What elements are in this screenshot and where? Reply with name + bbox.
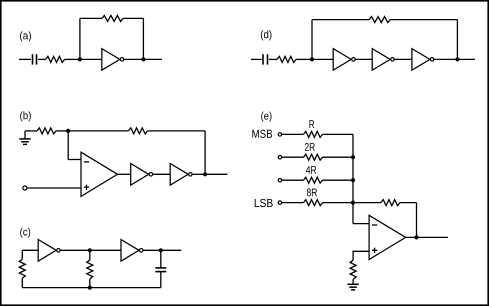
terminal bit2 (e) (278, 179, 281, 182)
wire R11 to bus (323, 179, 354, 181)
wire U4 to node B2 (434, 58, 457, 60)
label MSB (252, 130, 272, 138)
resistor R9 (R) (304, 131, 323, 137)
wire feedback to R13 (353, 202, 381, 204)
node B1 (141, 57, 145, 61)
wire feedback right vertical (a) (142, 18, 144, 59)
wire U5 to U6 (118, 173, 131, 175)
node B2 (455, 57, 459, 61)
wire bit2 to R11 (281, 179, 303, 181)
wire output (b) (205, 173, 227, 175)
wire bottom rail (c) (22, 287, 161, 289)
resistor R14 (350, 260, 356, 279)
node B4 (159, 248, 163, 252)
terminal input (b) (23, 186, 27, 190)
wire feedback top left (a) (80, 17, 102, 19)
wire R5 to node A3 (56, 130, 68, 132)
terminal bit1 (e) (278, 156, 281, 159)
terminal bit3 (e) (278, 201, 281, 204)
wire summing bus vertical (352, 134, 354, 223)
wire R6 to corner (b) (148, 130, 206, 132)
wire bit3 to R12 (281, 202, 303, 204)
resistor R4 feedback (369, 17, 390, 23)
node output (e) (414, 235, 418, 239)
capacitor C3 (155, 268, 166, 272)
wire feedback top right (a) (123, 17, 143, 19)
node C4 (88, 286, 92, 290)
wire non-inverting input U10 (353, 251, 369, 260)
node A3 (66, 129, 70, 133)
inverter U4 (412, 49, 434, 71)
wire bit1 to R10 (281, 156, 303, 158)
inverter U7 (170, 164, 192, 186)
capacitor C2 (263, 54, 268, 64)
wire R1 to node A1 (65, 58, 80, 60)
node A2 (310, 57, 314, 61)
wire U8 to node A4 (60, 249, 90, 251)
node bus row2 (351, 155, 355, 159)
resistor R12 (8R) (304, 200, 323, 206)
node A1 (78, 57, 82, 61)
label LSB (255, 199, 273, 207)
wire output (d) (457, 58, 475, 60)
inverter U9 (121, 240, 143, 262)
wire feedback left vertical (d) (311, 20, 313, 60)
wire to non-inverting input U5 (27, 187, 81, 189)
wire feedback top right (d) (390, 19, 457, 21)
resistor R3 (277, 56, 296, 62)
wire feedback vertical (b) (204, 131, 206, 174)
wire node B4 down to C3 (160, 250, 162, 268)
wire R10 to bus (323, 156, 354, 158)
wire feedback right vertical (d) (456, 20, 458, 60)
inverter U8 (38, 240, 60, 262)
node bus row4 (351, 201, 355, 205)
resistor R1 (46, 56, 65, 62)
capacitor C1 (33, 54, 37, 64)
wire C2 to R3 (269, 58, 277, 60)
wire output (c) (161, 249, 181, 251)
wire input corner (c) (22, 250, 38, 259)
wire R14 to GND2 (352, 279, 354, 284)
inverter U6 (131, 164, 153, 186)
label (a) (20, 31, 31, 41)
wire GND1 corner to R5 (25, 130, 37, 132)
resistor R6 (129, 128, 148, 134)
wire node A2 to U2 (312, 58, 333, 60)
wire C3 to bottom rail (160, 272, 162, 288)
wire bit0 to R9 (281, 133, 303, 135)
wire GND1 up (24, 131, 26, 139)
wire U1 to node B1 (124, 58, 143, 60)
wire U2 to U3 (355, 58, 372, 60)
resistor R10 (2R) (304, 154, 323, 160)
wire R8 to node C4 (89, 279, 91, 288)
wire node A3 down (67, 131, 69, 160)
terminal bit0 (e) (278, 133, 281, 136)
label (e) (261, 112, 271, 122)
resistor R11 (4R) (304, 177, 323, 183)
inverter U3 (372, 49, 394, 71)
node bus row3 (351, 178, 355, 182)
label (b) (20, 111, 31, 121)
wire feedback vertical (e) (416, 203, 418, 238)
label (d) (261, 30, 272, 40)
wire input (a) (19, 58, 31, 60)
wire bus to inverting input U10 (353, 223, 369, 225)
wire C1 to R1 (38, 58, 46, 60)
wire R13 to corner (e) (400, 202, 417, 204)
op-amp U5 (81, 152, 118, 196)
wire output (e) (406, 236, 448, 238)
node B3 (203, 172, 207, 176)
wire R7 to bottom rail (21, 278, 23, 287)
wire R12 to bus (323, 202, 354, 204)
wire U7 to node B3 (192, 173, 205, 175)
resistor R2 feedback (102, 15, 123, 21)
label 2R (305, 143, 315, 151)
wire node A4 to U9 (90, 249, 121, 251)
label 4R (306, 166, 316, 174)
wire feedback top left (d) (312, 19, 369, 21)
label (c) (20, 228, 30, 238)
wire to inverting input U5 (68, 159, 81, 161)
resistor R5 (37, 128, 56, 134)
wire output (a) (143, 58, 162, 60)
label R (309, 120, 314, 128)
wire U3 to U4 (394, 58, 412, 60)
inverter U1 (102, 49, 124, 71)
node A4 (88, 248, 92, 252)
resistor R13 feedback (381, 200, 400, 206)
wire node A4 down (89, 250, 91, 260)
op-amp U10 (369, 215, 406, 259)
wire R9 to bus (323, 133, 354, 135)
ground GND1 (19, 139, 30, 145)
inverter U2 (333, 49, 355, 71)
label 8R (307, 188, 317, 196)
wire node A3 to R6 (68, 130, 128, 132)
wire input (d) (251, 58, 262, 60)
ground GND2 (347, 284, 358, 290)
resistor R7 (19, 259, 25, 278)
wire U6 to U7 (153, 173, 170, 175)
wire node A1 to U1 (80, 58, 102, 60)
wire R3 to node A2 (296, 58, 312, 60)
resistor R8 (87, 260, 93, 279)
wire U9 to node B4 (143, 249, 161, 251)
wire feedback left vertical (a) (79, 18, 81, 59)
